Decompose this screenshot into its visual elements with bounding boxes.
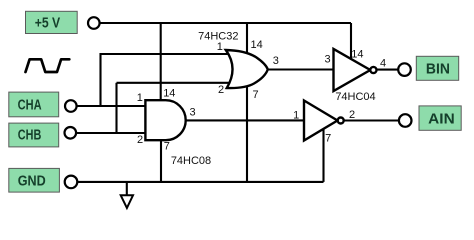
- terminal BIN: [398, 63, 411, 76]
- wire 74HC08 pin7 to ground rail: [160, 139, 162, 182]
- or-gate U1 74HC32: [226, 50, 268, 88]
- wire CHB to OR input 2: [117, 82, 231, 84]
- wire CHA branch vertical: [99, 53, 101, 106]
- svg-text:7: 7: [325, 133, 331, 145]
- terminal GND: [65, 176, 78, 189]
- svg-text:CHB: CHB: [18, 128, 42, 144]
- svg-text:7: 7: [253, 89, 259, 101]
- wire 74HC08 pin14 to +5V rail: [160, 23, 162, 101]
- wire inverter U2B output to AIN terminal: [344, 119, 399, 121]
- svg-text:BIN: BIN: [426, 62, 450, 78]
- wire CHA to OR input 1: [100, 53, 230, 55]
- svg-text:2: 2: [218, 84, 224, 96]
- label box BIN: [416, 56, 458, 80]
- terminal CHA: [65, 100, 77, 112]
- wire CHB to AND input 2: [76, 132, 146, 134]
- svg-text:AIN: AIN: [428, 111, 455, 127]
- wire OR output to inverter input pin3: [266, 68, 334, 70]
- label box GND: [9, 168, 60, 192]
- svg-text:3: 3: [324, 54, 330, 66]
- svg-text:1: 1: [217, 41, 223, 53]
- wire CHB branch vertical: [115, 83, 117, 133]
- terminal +5V: [88, 17, 100, 29]
- inverter U2A bubble: [370, 67, 376, 73]
- svg-text:4: 4: [380, 58, 386, 70]
- label box CHB: [9, 123, 59, 147]
- terminal CHB: [65, 127, 77, 139]
- ground symbol: [121, 182, 133, 208]
- label box CHA: [9, 92, 59, 117]
- label box AIN: [419, 106, 461, 130]
- wire 74HC32 pin14 to +5V rail: [246, 23, 248, 54]
- svg-text:2: 2: [137, 134, 143, 146]
- wire ground rail: [77, 181, 323, 183]
- wire AND output to inverter input pin1: [184, 119, 304, 121]
- wire CHA to AND input: [77, 105, 146, 107]
- svg-text:3: 3: [273, 55, 279, 67]
- svg-text:7: 7: [164, 141, 170, 153]
- svg-text:GND: GND: [18, 174, 46, 190]
- and-gate U3 74HC08: [145, 100, 185, 140]
- svg-text:74HC08: 74HC08: [171, 155, 211, 167]
- wire 74HC04 pin14 to +5V rail: [350, 23, 352, 60]
- svg-text:1: 1: [137, 92, 143, 104]
- svg-text:CHA: CHA: [18, 98, 42, 114]
- svg-text:+5 V: +5 V: [35, 16, 61, 32]
- svg-text:74HC04: 74HC04: [335, 91, 375, 103]
- wire inverter U2A output to BIN terminal: [377, 69, 399, 71]
- waveform symbol: [26, 59, 70, 72]
- label box +5V: [26, 11, 78, 33]
- svg-text:14: 14: [251, 39, 263, 51]
- wire 74HC04 pin7 to ground rail: [322, 127, 324, 182]
- inverter U2B triangle: [304, 101, 338, 141]
- svg-text:1: 1: [293, 110, 299, 122]
- terminal AIN: [399, 114, 412, 127]
- svg-text:14: 14: [163, 88, 175, 100]
- svg-text:3: 3: [189, 107, 195, 119]
- wire +5V rail: [100, 22, 351, 24]
- inverter U2B bubble: [338, 118, 344, 124]
- wire 74HC32 pin7 to ground rail: [246, 85, 248, 182]
- svg-text:14: 14: [351, 49, 363, 61]
- inverter U2A triangle: [334, 49, 371, 91]
- svg-text:2: 2: [349, 109, 355, 121]
